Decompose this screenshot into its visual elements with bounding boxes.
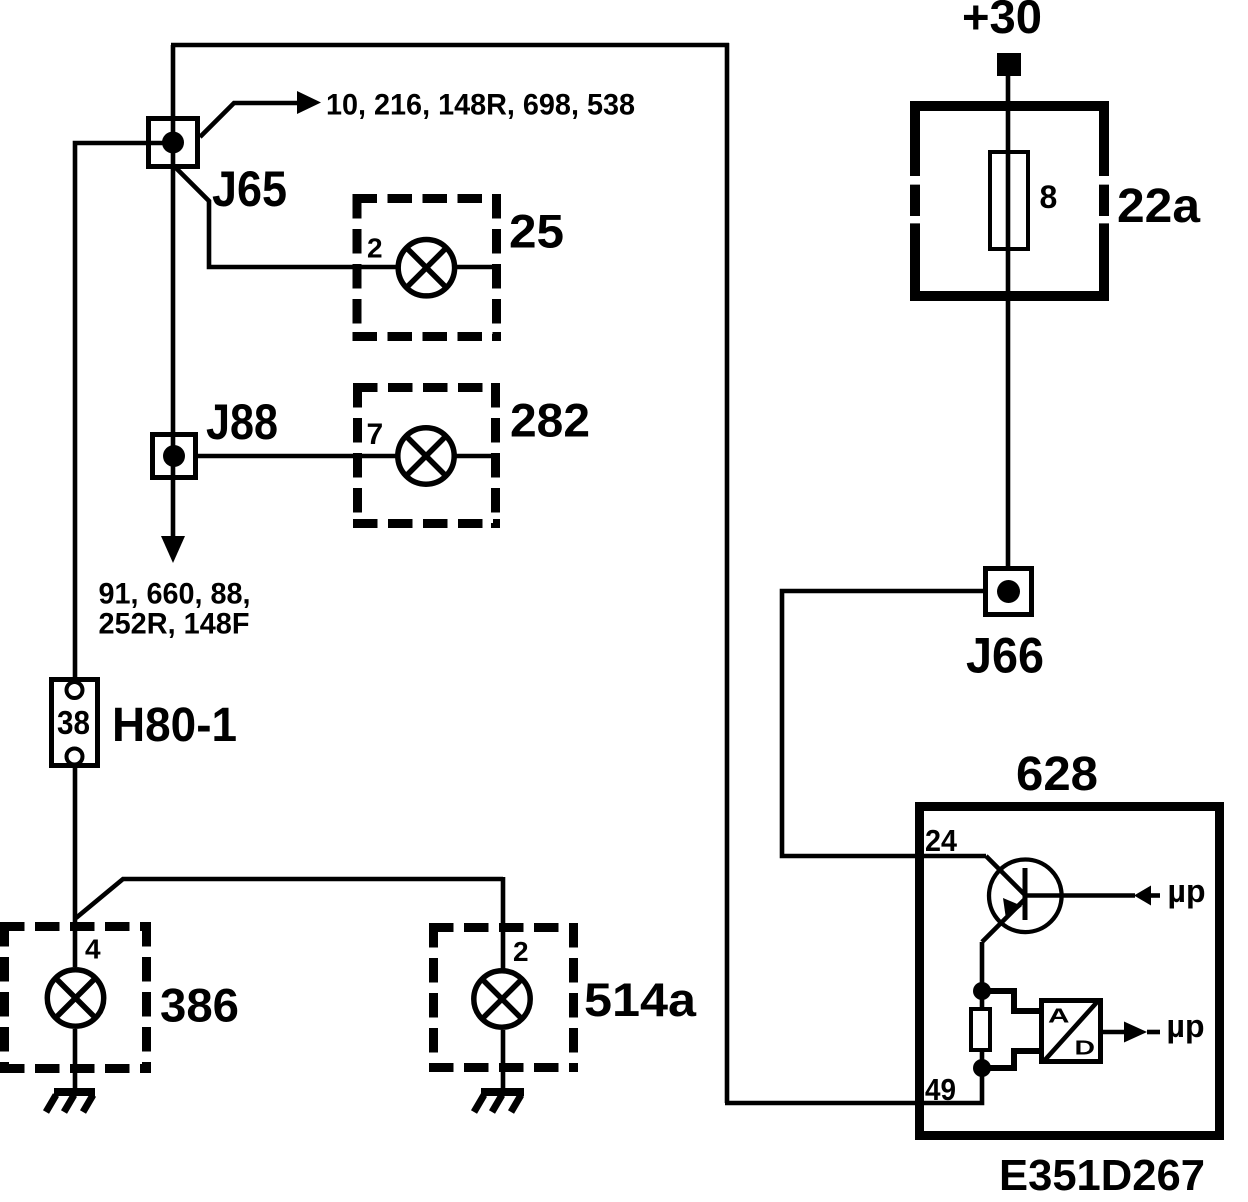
ground 514a [481, 1088, 524, 1096]
wire branch to 514a [76, 879, 503, 918]
resistor R [971, 1009, 990, 1050]
svg-text:10, 216, 148R, 698, 538: 10, 216, 148R, 698, 538 [326, 89, 635, 122]
svg-text:7: 7 [367, 418, 384, 451]
svg-text:2: 2 [513, 936, 529, 967]
svg-text:49: 49 [925, 1072, 956, 1107]
svg-text:252R, 148F: 252R, 148F [99, 608, 250, 641]
wire J66 to 628 pin 24 [782, 591, 986, 856]
svg-text:282: 282 [510, 394, 590, 447]
wire to A/D bottom [982, 1051, 1040, 1068]
lamp 386 [47, 970, 103, 1026]
wire bottom to pin 49 [725, 1068, 982, 1103]
wire +30 to J66 [1006, 76, 1011, 566]
fuse box 22a (dashed thick) [910, 101, 1109, 301]
wire top horizontal from J65 to right drop [171, 43, 729, 48]
transistor collector diagonal [986, 856, 1025, 895]
ground 386 [54, 1088, 95, 1096]
control unit box 628 [920, 807, 1220, 1136]
wire drop into 514a [501, 877, 506, 969]
fuse H80-1 [52, 680, 98, 766]
svg-text:J66: J66 [966, 628, 1044, 684]
terminal +30 [997, 53, 1021, 76]
svg-text:µp: µp [1167, 1008, 1205, 1044]
svg-text:4: 4 [85, 934, 101, 965]
svg-text:386: 386 [160, 979, 239, 1032]
svg-text:22a: 22a [1117, 180, 1200, 233]
wire lamp 25 right stub [456, 265, 500, 270]
junction box J65 [149, 119, 198, 167]
svg-text:8: 8 [1040, 179, 1058, 215]
lamp box 386 (dashed) [0, 922, 151, 1073]
wire lamp 386 to ground [73, 1029, 78, 1089]
lamp 282 [398, 428, 454, 484]
A/D converter box [1042, 1001, 1101, 1062]
junction dot top [973, 982, 991, 1000]
svg-text:2: 2 [367, 233, 383, 264]
wire J65 to lamp 25 [176, 168, 397, 267]
wire J65 left branch [75, 143, 173, 677]
svg-text:H80-1: H80-1 [112, 699, 237, 752]
svg-text:E351D267: E351D267 [999, 1151, 1205, 1200]
svg-text:514a: 514a [584, 973, 697, 1026]
svg-text:A: A [1048, 1006, 1070, 1028]
wire diagonal J65 to arrow 10,216 [200, 103, 297, 137]
transistor base line to microprocessor [1027, 893, 1135, 898]
lamp box 25 (dashed) [353, 194, 502, 341]
svg-text:µp: µp [1168, 873, 1206, 909]
wire vertical through J65 and J88 [171, 45, 176, 538]
lamp box 514a (dashed) [429, 923, 578, 1072]
transistor T1 [989, 860, 1062, 933]
svg-text:+30: +30 [962, 0, 1042, 43]
svg-text:38: 38 [57, 704, 90, 741]
A/D output arrow to up2 [1103, 1030, 1125, 1035]
junction dot J65 [162, 132, 184, 154]
transistor emitter with arrow [982, 899, 1025, 942]
svg-text:91, 660, 88,: 91, 660, 88, [99, 578, 251, 611]
junction box J88 [153, 435, 196, 478]
svg-text:24: 24 [925, 823, 958, 858]
arrow right 10,216,148R,698,538 [297, 91, 321, 114]
junction dot bottom [973, 1059, 991, 1077]
svg-text:J88: J88 [206, 394, 278, 450]
wire lamp 282 right stub [456, 454, 500, 459]
lamp box 282 (dashed) [353, 383, 500, 528]
junction dot J88 [163, 445, 185, 467]
junction dot J66 [997, 580, 1020, 603]
lamp 25 [398, 240, 454, 296]
wire to A/D top [982, 991, 1040, 1011]
junction box J66 [986, 569, 1032, 615]
wire J88 to lamp 282 [198, 454, 397, 459]
svg-text:J65: J65 [212, 161, 287, 217]
lamp 514a [474, 971, 530, 1027]
wire H80-1 to lamp 386 [73, 768, 78, 967]
svg-text:628: 628 [1016, 748, 1098, 801]
wire emitter to resistor to pin 49 [980, 991, 985, 1068]
wire lamp 514a to ground [501, 1030, 506, 1089]
wire long vertical right drop x=727 [725, 43, 730, 1103]
svg-text:D: D [1075, 1038, 1096, 1060]
fuse 8 symbol [990, 152, 1028, 249]
arrow left at up1 [1134, 886, 1151, 906]
arrow down below J88 [161, 536, 185, 563]
svg-text:25: 25 [509, 205, 564, 258]
